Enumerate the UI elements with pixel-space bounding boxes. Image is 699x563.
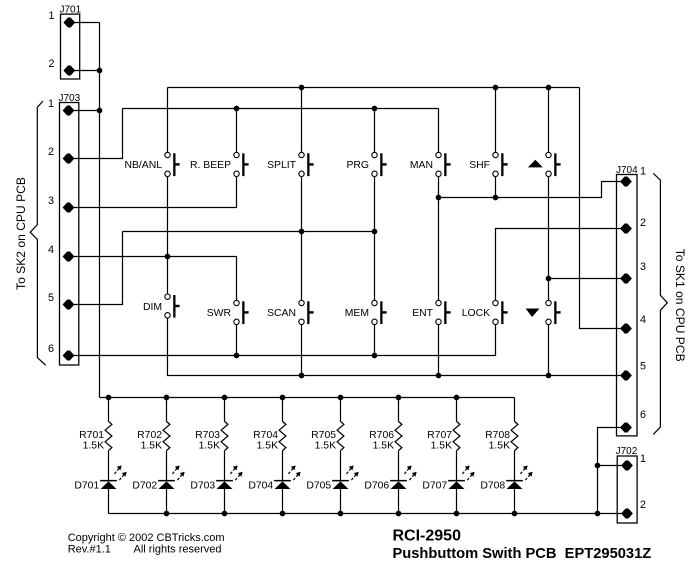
- svg-text:D704: D704: [248, 481, 273, 492]
- junction bottom rail / SCAN bottom: [299, 373, 305, 379]
- J704 pin 3: [621, 274, 632, 283]
- connector J702: [616, 446, 638, 523]
- resistor R701 1.5K: [105, 398, 112, 481]
- svg-text:Copyright © 2002 CBTricks.com: Copyright © 2002 CBTricks.com: [68, 532, 225, 544]
- wire MEM bottom drop: [374, 322, 376, 356]
- junction supply rail / R701: [106, 395, 112, 401]
- junction node A / J701 pin2: [97, 68, 103, 74]
- wire J703 pin2 feed: [69, 109, 123, 159]
- wire SHF top drop: [495, 88, 497, 156]
- wire MAN-SHF bottom rail to J704 pin1: [439, 182, 627, 198]
- wire UP top drop: [548, 88, 550, 156]
- pushbutton NB/ANL: [124, 152, 179, 176]
- resistor R705 1.5K: [337, 398, 344, 481]
- junction supply rail / R706: [396, 395, 402, 401]
- pushbutton SCAN: [267, 300, 313, 324]
- right brace for J704: [653, 173, 667, 434]
- svg-text:1.5K: 1.5K: [257, 441, 278, 452]
- resistor R702 1.5K: [163, 398, 170, 481]
- svg-text:Pushbuttom Swith PCB EPT29503: Pushbuttom Swith PCB EPT295031Z: [393, 546, 652, 562]
- LED D706: [390, 466, 417, 514]
- wire J701 pin1 to node A: [69, 22, 99, 24]
- J703 pin 2: [63, 154, 74, 163]
- connector J701: [60, 5, 82, 79]
- svg-text:5: 5: [48, 292, 54, 304]
- svg-text:R704: R704: [253, 430, 278, 441]
- J704 pin 6: [621, 423, 632, 432]
- svg-text:R. BEEP: R. BEEP: [190, 160, 231, 171]
- wire SWR bottom drop: [236, 322, 238, 356]
- wire SCAN bottom drop: [301, 322, 303, 376]
- svg-text:3: 3: [640, 261, 646, 273]
- junction MANb rail / SHF bottom: [493, 195, 499, 201]
- svg-text:R705: R705: [311, 430, 336, 441]
- J701 pin 1: [64, 18, 75, 27]
- wire LOCK top to J704 pin2: [496, 229, 627, 304]
- svg-text:1.5K: 1.5K: [199, 441, 220, 452]
- svg-text:SCAN: SCAN: [267, 308, 296, 319]
- wire J703 pin6 rail to LOCK bottom: [69, 322, 496, 356]
- svg-text:1: 1: [640, 166, 646, 178]
- svg-text:All rights reserved: All rights reserved: [134, 543, 222, 555]
- LED D705: [332, 466, 359, 514]
- junction cathode rail / D706: [396, 511, 402, 517]
- junction pin6 rail / MEM bottom: [372, 353, 378, 359]
- svg-text:J703: J703: [59, 93, 81, 104]
- svg-text:D705: D705: [306, 481, 331, 492]
- junction row2 / PRG top: [372, 106, 378, 112]
- junction cathode rail / D704: [280, 511, 286, 517]
- junction pin6 drop / J702 pin1: [595, 463, 601, 469]
- wire J704 pin6 to J702: [598, 428, 627, 514]
- svg-text:J704: J704: [616, 165, 638, 176]
- svg-text:2: 2: [48, 58, 54, 70]
- svg-text:R702: R702: [137, 430, 162, 441]
- svg-text:SHF: SHF: [469, 160, 490, 171]
- pushbutton DIM: [143, 294, 180, 318]
- svg-text:1: 1: [48, 98, 54, 110]
- J704 pin 1: [621, 177, 632, 186]
- resistor R703 1.5K: [221, 398, 228, 481]
- junction pin6 rail / SWR bottom: [234, 353, 240, 359]
- junction UP-DOWN / J704 pin3: [546, 276, 552, 282]
- svg-text:LOCK: LOCK: [462, 308, 490, 319]
- junction row3 / PRG bottom: [372, 229, 378, 235]
- svg-text:1.5K: 1.5K: [315, 441, 336, 452]
- wire LED cathode rail to J702 pin2: [109, 513, 628, 515]
- svg-text:D708: D708: [480, 481, 505, 492]
- svg-text:2: 2: [640, 499, 646, 511]
- wire J701 pin2 to node A: [69, 70, 99, 72]
- junction cathode rail / D707: [454, 511, 460, 517]
- svg-text:1.5K: 1.5K: [431, 441, 452, 452]
- wire node A vertical (LED supply): [99, 23, 101, 398]
- left brace for J703: [30, 101, 46, 365]
- junction supply rail / R704: [280, 395, 286, 401]
- svg-text:1: 1: [640, 453, 646, 465]
- wire ENT bottom drop: [438, 322, 440, 376]
- svg-text:ENT: ENT: [412, 308, 433, 319]
- svg-text:RCI-2950: RCI-2950: [393, 528, 462, 545]
- svg-text:6: 6: [640, 409, 646, 421]
- J702 pin 1: [622, 461, 633, 470]
- wire SHF bottom drop: [495, 174, 497, 198]
- svg-text:R701: R701: [79, 430, 104, 441]
- LED D707: [448, 466, 475, 514]
- wire PRG top drop: [374, 109, 376, 156]
- svg-text:J701: J701: [60, 5, 82, 16]
- svg-text:To SK2 on CPU PCB: To SK2 on CPU PCB: [14, 177, 28, 290]
- junction bottom rail / DOWN bottom: [546, 373, 552, 379]
- wire DOWN bottom drop: [548, 322, 550, 376]
- svg-text:PRG: PRG: [346, 160, 369, 171]
- wire J702 pin1 tap: [598, 465, 628, 467]
- wire PRG bottom to MEM top: [374, 174, 376, 303]
- LED D702: [158, 466, 185, 514]
- pushbutton PRG: [346, 152, 386, 176]
- wire MAN bottom to ENT top: [438, 174, 440, 303]
- J703 pin 3: [63, 203, 74, 212]
- svg-text:MAN: MAN: [410, 160, 433, 171]
- junction row1 / UP top: [546, 85, 552, 91]
- pushbutton SWR: [207, 300, 249, 324]
- junction supply rail / R705: [338, 395, 344, 401]
- wire NB/ANL top drop: [167, 88, 169, 156]
- svg-text:1.5K: 1.5K: [373, 441, 394, 452]
- pushbutton DOWN arrow: [526, 300, 561, 324]
- wire J704 pin3 tap: [549, 278, 627, 280]
- svg-text:D707: D707: [422, 481, 447, 492]
- pushbutton MAN: [410, 152, 451, 176]
- J702 pin 2: [622, 509, 633, 518]
- junction cathode rail / D705: [338, 511, 344, 517]
- junction row1 / SHF top: [493, 85, 499, 91]
- LED D703: [216, 466, 243, 514]
- pushbutton SHF: [469, 152, 507, 176]
- junction pin6 drop / cathode rail: [595, 511, 601, 517]
- wire rail row1 (NB/ANL SPLIT SHF UP tops): [168, 87, 580, 89]
- junction supply rail / R707: [454, 395, 460, 401]
- connector J704: [616, 165, 638, 436]
- svg-text:D706: D706: [364, 481, 389, 492]
- wire J703 pin1 to node A: [69, 110, 100, 112]
- svg-text:1: 1: [48, 10, 54, 22]
- svg-text:R703: R703: [195, 430, 220, 441]
- svg-text:3: 3: [48, 195, 54, 207]
- svg-text:R706: R706: [369, 430, 394, 441]
- pushbutton LOCK: [462, 300, 508, 324]
- resistor R707 1.5K: [453, 398, 460, 481]
- LED D701: [100, 466, 127, 514]
- J703 pin 4: [63, 252, 74, 261]
- wire rail row3 (J703.5 SPLITb PRGb): [123, 231, 375, 233]
- pushbutton R. BEEP: [190, 152, 249, 176]
- wire MAN top drop: [438, 109, 440, 156]
- J703 pin 1: [63, 106, 74, 115]
- pushbutton UP arrow: [528, 152, 561, 176]
- wire bottom rail to J704 pin5: [168, 315, 627, 375]
- wire row1 drop to J704 pin4: [580, 88, 627, 329]
- junction cathode rail / D703: [222, 511, 228, 517]
- svg-text:To SK1 on CPU PCB: To SK1 on CPU PCB: [673, 249, 687, 362]
- svg-text:1.5K: 1.5K: [489, 441, 510, 452]
- svg-text:D702: D702: [132, 481, 157, 492]
- J704 pin 4: [621, 324, 632, 333]
- J701 pin 2: [64, 66, 75, 75]
- junction row1 / SPLIT top: [299, 85, 305, 91]
- J703 pin 5: [63, 300, 74, 309]
- wire SPLIT bottom to SCAN top: [301, 174, 303, 303]
- resistor R704 1.5K: [279, 398, 286, 481]
- pushbutton MEM: [345, 300, 387, 324]
- J704 pin 2: [621, 224, 632, 233]
- junction supply rail / R702: [164, 395, 170, 401]
- wire resistor supply rail: [100, 397, 515, 399]
- svg-text:SWR: SWR: [207, 308, 232, 319]
- J704 pin 5: [621, 371, 632, 380]
- svg-text:D703: D703: [190, 481, 215, 492]
- svg-text:2: 2: [640, 217, 646, 229]
- LED D704: [274, 466, 301, 514]
- junction row3 / SPLIT bottom: [299, 229, 305, 235]
- J703 pin 6: [63, 351, 74, 360]
- resistor R706 1.5K: [395, 398, 402, 481]
- junction row2 / R.BEEP top: [234, 106, 240, 112]
- svg-text:1.5K: 1.5K: [141, 441, 162, 452]
- wire NB/ANL bottom to DIM top: [167, 174, 169, 297]
- wire R.BEEP bottom to J703 pin3: [69, 174, 237, 208]
- wire R.BEEP top drop: [236, 109, 238, 156]
- svg-text:R707: R707: [427, 430, 452, 441]
- junction bottom rail / ENT bottom: [436, 373, 442, 379]
- wire rail row2 (J703.2 R.BEEP PRG MAN tops): [123, 108, 439, 110]
- pushbutton ENT: [412, 300, 450, 324]
- junction supply rail / R703: [222, 395, 228, 401]
- svg-text:D701: D701: [74, 481, 99, 492]
- junction cathode rail / D702: [164, 511, 170, 517]
- wire J703 pin4 rail to SWR top: [69, 257, 237, 304]
- junction NB/ANL-DIM / J703 pin4 rail: [165, 254, 171, 260]
- svg-text:NB/ANL: NB/ANL: [124, 160, 162, 171]
- svg-text:MEM: MEM: [345, 308, 369, 319]
- pushbutton SPLIT: [267, 152, 313, 176]
- wire row3 drop to J703 pin5: [69, 232, 123, 305]
- svg-text:J702: J702: [616, 446, 638, 457]
- svg-text:6: 6: [48, 343, 54, 355]
- wire UP bottom to DOWN top: [548, 174, 550, 303]
- svg-text:SPLIT: SPLIT: [267, 160, 297, 171]
- resistor R708 1.5K: [511, 398, 518, 481]
- junction cathode rail / D708: [512, 511, 518, 517]
- svg-text:4: 4: [640, 314, 646, 326]
- junction node A / J703 pin1: [97, 108, 103, 114]
- svg-text:2: 2: [48, 146, 54, 158]
- svg-text:1.5K: 1.5K: [83, 441, 104, 452]
- junction MANb rail / MAN bottom: [436, 195, 442, 201]
- svg-text:5: 5: [640, 361, 646, 373]
- svg-text:4: 4: [48, 244, 54, 256]
- connector J703: [59, 93, 81, 365]
- LED D708: [506, 466, 533, 514]
- svg-text:R708: R708: [485, 430, 510, 441]
- wire SPLIT top drop: [301, 88, 303, 156]
- svg-text:DIM: DIM: [143, 302, 162, 313]
- svg-text:Rev.#1.1: Rev.#1.1: [68, 543, 111, 555]
